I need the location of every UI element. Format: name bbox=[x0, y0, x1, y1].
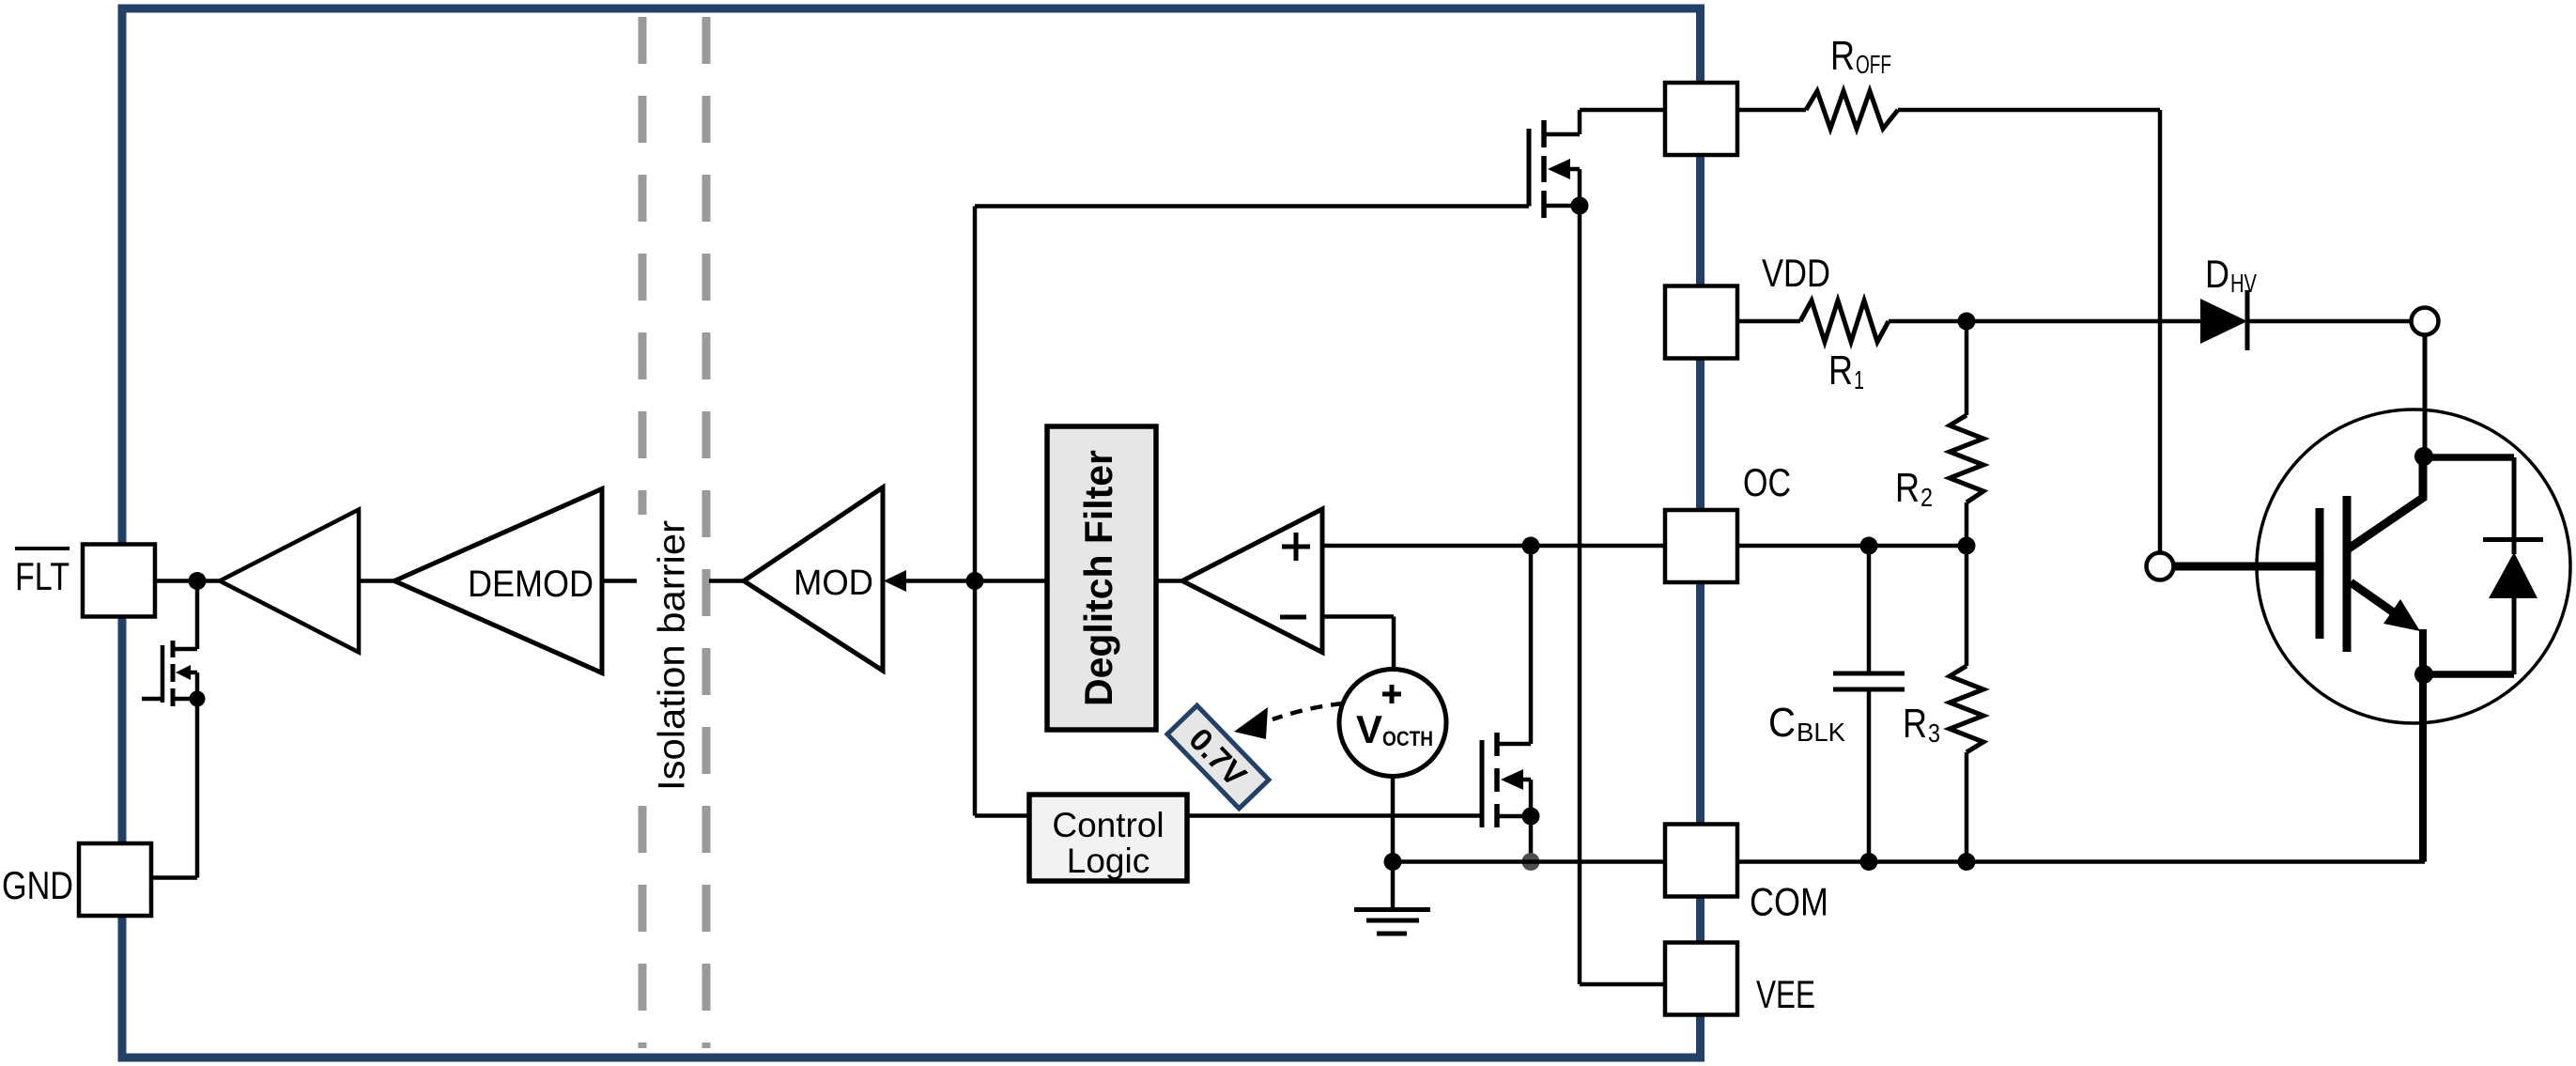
wire DHV to collector terminal bbox=[2247, 319, 2411, 324]
wire OUT pin to ROFF bbox=[1737, 108, 1806, 113]
wire DEMOD to isolation barrier bbox=[602, 579, 637, 583]
node VDD/R2 junction bbox=[1958, 313, 1976, 331]
wire comparator minus input to VOCTH bbox=[1322, 617, 1394, 670]
svg-text:DEMOD: DEMOD bbox=[468, 564, 594, 605]
node CBLK top junction bbox=[1860, 537, 1878, 555]
svg-text:2: 2 bbox=[1920, 483, 1933, 512]
svg-text:GND: GND bbox=[2, 863, 73, 907]
pin OUT bbox=[1665, 83, 1737, 155]
wire COM rail inside IC bbox=[1393, 859, 1665, 864]
svg-text:HV: HV bbox=[2230, 269, 2257, 298]
node COM rail junction (gray) bbox=[1522, 853, 1540, 871]
node IGBT collector junction bbox=[2414, 447, 2433, 466]
svg-text:FLT: FLT bbox=[15, 554, 69, 598]
IGBT emitter stroke with arrowhead bbox=[2351, 582, 2423, 862]
svg-text:D: D bbox=[2205, 252, 2229, 296]
wire collector terminal down to IGBT bbox=[2423, 335, 2428, 457]
svg-text:Isolation barrier: Isolation barrier bbox=[652, 520, 693, 791]
wire MOD junction down to Control Logic bbox=[975, 581, 1029, 816]
svg-text:R: R bbox=[1828, 348, 1853, 394]
node IGBT emitter junction bbox=[2414, 665, 2433, 684]
wire OC pin to divider bbox=[1737, 544, 1967, 548]
svg-text:OC: OC bbox=[1743, 460, 1791, 504]
svg-text:1: 1 bbox=[1854, 365, 1864, 394]
node R2/R3 junction bbox=[1958, 537, 1976, 555]
amplifier MOD bbox=[744, 487, 883, 671]
wire Q2 drain to plus-input junction bbox=[1529, 546, 1534, 744]
diode DHV bbox=[2200, 290, 2247, 350]
wire comparator plus input to OC pin bbox=[1322, 544, 1665, 548]
wire ROFF to IGBT gate bbox=[1898, 110, 2160, 552]
svg-text:R: R bbox=[1830, 33, 1855, 79]
svg-text:VDD: VDD bbox=[1762, 251, 1830, 295]
svg-text:Deglitch Filter: Deglitch Filter bbox=[1076, 450, 1120, 706]
isolation barrier dashed line right bbox=[702, 17, 711, 1048]
svg-text:3: 3 bbox=[1928, 718, 1940, 748]
node Q2 source junction bbox=[1522, 808, 1540, 826]
resistor R3 bbox=[1950, 546, 1983, 862]
wire Q3 source to VEE pin bbox=[1580, 206, 1665, 984]
svg-text:BLK: BLK bbox=[1797, 718, 1845, 747]
wire Q1 source to GND pin bbox=[151, 699, 197, 878]
IGBT gate bar bbox=[2316, 508, 2324, 639]
IC boundary box bbox=[122, 8, 1701, 1058]
node CBLK bottom junction bbox=[1860, 853, 1878, 871]
svg-text:OFF: OFF bbox=[1856, 50, 1891, 79]
transistor Q3 (output pull-down MOSFET) bbox=[975, 110, 1665, 581]
node MOD input junction bbox=[966, 572, 984, 590]
wire COM pin to IGBT emitter bbox=[1737, 859, 2425, 864]
buffer U1 (FLT output buffer) bbox=[220, 510, 359, 653]
node FLT junction bbox=[189, 572, 207, 590]
wire buffer to DEMOD bbox=[359, 579, 394, 583]
IGBT gate wire bbox=[2173, 563, 2316, 571]
comparator plus sign bbox=[1282, 533, 1310, 561]
svg-text:COM: COM bbox=[1750, 880, 1828, 924]
isolation barrier dashed line left bbox=[639, 17, 647, 1048]
svg-text:R: R bbox=[1903, 701, 1927, 747]
pin FLT bbox=[83, 545, 155, 617]
wire diode anode to emitter bbox=[2424, 671, 2514, 678]
dashed annotation arrow VOCTH to 0.7V bbox=[1234, 703, 1343, 739]
resistor R2 bbox=[1950, 321, 1983, 546]
pin COM bbox=[1665, 825, 1737, 897]
voltage source VOCTH bbox=[1339, 670, 1446, 777]
svg-text:MOD: MOD bbox=[794, 564, 873, 603]
comparator U2 bbox=[1182, 509, 1322, 653]
wire Deglitch Filter to comparator bbox=[1156, 579, 1182, 583]
IGBT channel bar bbox=[2343, 496, 2352, 652]
IGBT collector stroke bbox=[2349, 456, 2423, 548]
svg-text:VEE: VEE bbox=[1756, 972, 1815, 1016]
0.7V callout label bbox=[1167, 705, 1269, 809]
FLT label with overline bbox=[15, 548, 69, 598]
ground bbox=[1354, 862, 1430, 935]
wire collector to freewheel diode bbox=[2424, 457, 2514, 554]
Control Logic label bbox=[1052, 806, 1164, 880]
node ground junction bbox=[1384, 853, 1402, 871]
transistor Q1 (FLT pull-down MOSFET) bbox=[142, 581, 197, 707]
amplifier DEMOD bbox=[394, 489, 602, 673]
terminal collector (open circle) bbox=[2412, 308, 2439, 335]
terminal gate (open circle) bbox=[2147, 553, 2174, 580]
IGBT body circle bbox=[2257, 409, 2570, 723]
resistor R1 bbox=[1800, 301, 1889, 342]
wire VDD pin to R1 bbox=[1737, 319, 1800, 324]
wire FLT pin to buffer input bbox=[155, 579, 220, 583]
wire Control Logic to Q2 gate bbox=[1187, 813, 1482, 818]
wire deglitch output to MOD with arrowhead bbox=[884, 570, 975, 592]
transistor Q2 (OC pull-down MOSFET) bbox=[1482, 733, 1531, 827]
wire Q2 source to COM rail bbox=[1529, 816, 1534, 862]
svg-text:R: R bbox=[1895, 465, 1920, 511]
comparator minus sign bbox=[1280, 615, 1306, 620]
Deglitch Filter block bbox=[1047, 426, 1156, 730]
Control Logic block bbox=[1029, 795, 1187, 881]
pin VEE bbox=[1665, 943, 1737, 1015]
svg-text:Control: Control bbox=[1052, 806, 1164, 844]
wire junction to Deglitch Filter bbox=[975, 579, 1047, 583]
wire R1 to DHV anode bbox=[1889, 319, 2200, 324]
node plus-input / Q2 drain junction bbox=[1522, 537, 1540, 555]
svg-text:Logic: Logic bbox=[1067, 842, 1149, 880]
node Q3 source junction bbox=[1571, 197, 1589, 215]
node Q1 source junction bbox=[190, 691, 206, 707]
VOCTH plus sign bbox=[1382, 685, 1401, 703]
capacitor CBLK bbox=[1833, 546, 1905, 862]
pin GND bbox=[79, 843, 151, 916]
diode D2 (freewheel) bbox=[2483, 540, 2543, 675]
svg-text:C: C bbox=[1768, 700, 1796, 746]
wire isolation barrier to MOD bbox=[709, 579, 744, 583]
node R3 bottom junction bbox=[1958, 853, 1976, 871]
pin OC bbox=[1665, 510, 1737, 582]
pin VDD bbox=[1665, 286, 1737, 359]
resistor ROFF bbox=[1806, 91, 1898, 129]
wire VOCTH to ground bbox=[1391, 777, 1396, 862]
isolation text background bbox=[633, 515, 697, 795]
